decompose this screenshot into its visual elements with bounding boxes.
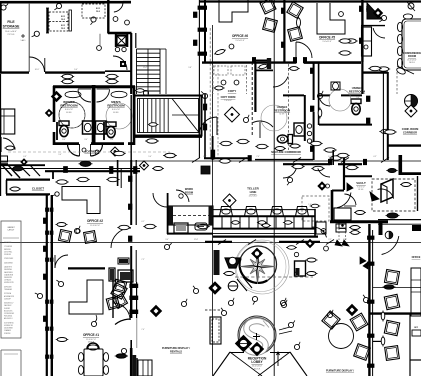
- svg-text:8'-0": 8'-0": [110, 139, 114, 141]
- svg-text:9'-0": 9'-0": [58, 154, 62, 156]
- svg-text:LINE: LINE: [250, 190, 257, 194]
- svg-text:OFFICE: OFFICE: [412, 256, 421, 259]
- svg-text:FURNITURE DISPLAY /: FURNITURE DISPLAY /: [326, 369, 354, 373]
- svg-text:7'-4": 7'-4": [256, 156, 260, 158]
- svg-text:5'-0": 5'-0": [356, 97, 360, 99]
- svg-text:99X6DD9: 99X6DD9: [4, 254, 11, 256]
- svg-text:52 S.F.: 52 S.F.: [279, 114, 285, 116]
- svg-text:8'-0": 8'-0": [62, 139, 66, 141]
- svg-text:7'-0": 7'-0": [141, 329, 145, 331]
- svg-text:1'-6": 1'-6": [308, 204, 312, 206]
- svg-text:24'-0"x8'-0": 24'-0"x8'-0": [249, 195, 258, 197]
- svg-text:4'-1": 4'-1": [141, 221, 145, 223]
- svg-text:FILE: FILE: [7, 20, 15, 24]
- svg-text:10'-9": 10'-9": [35, 69, 40, 71]
- svg-text:60 S.F.: 60 S.F.: [66, 112, 72, 114]
- svg-text:8'-2": 8'-2": [203, 156, 207, 158]
- svg-text:COPY ROOM: COPY ROOM: [221, 96, 236, 99]
- svg-text:60 S.F.: 60 S.F.: [113, 112, 119, 114]
- svg-text:8'-0"x7'-6": 8'-0"x7'-6": [112, 109, 120, 111]
- svg-text:C323BXDDE2: C323BXDDE2: [4, 313, 14, 315]
- svg-text:ROOM: ROOM: [185, 190, 193, 194]
- svg-text:CONF. ROOM: CONF. ROOM: [402, 127, 419, 131]
- svg-text:RENTALS: RENTALS: [170, 349, 182, 353]
- svg-text:5798121E8X: 5798121E8X: [4, 258, 14, 260]
- svg-text:FD3-5B554: FD3-5B554: [4, 316, 12, 318]
- svg-text:6'-3": 6'-3": [23, 156, 27, 158]
- svg-text:OFFICE #1: OFFICE #1: [83, 333, 99, 337]
- svg-text:SECURE CORRIDOR: SECURE CORRIDOR: [271, 150, 302, 154]
- svg-text:886599B: 886599B: [4, 249, 10, 251]
- svg-text:4D2459B6B: 4D2459B6B: [4, 328, 13, 330]
- svg-text:462D6E85B: 462D6E85B: [4, 262, 13, 264]
- svg-text:STORAGE: STORAGE: [3, 25, 20, 29]
- svg-text:RESTROOM: RESTROOM: [274, 108, 291, 112]
- svg-text:5'-4": 5'-4": [74, 69, 78, 71]
- svg-text:OFFICE #2: OFFICE #2: [87, 219, 103, 223]
- svg-text:17X-B8538: 17X-B8538: [4, 246, 12, 248]
- svg-text:B22-EC69C: B22-EC69C: [4, 310, 13, 312]
- svg-text:-E9XEEC48: -E9XEEC48: [4, 325, 13, 327]
- svg-text:6F67EDF17D: 6F67EDF17D: [4, 282, 15, 284]
- svg-text:3E6D63111: 3E6D63111: [4, 277, 12, 279]
- svg-text:CORRIDOR: CORRIDOR: [403, 130, 417, 134]
- svg-text:8'-0"x7'-6": 8'-0"x7'-6": [65, 109, 73, 111]
- svg-text:1-A6.1: 1-A6.1: [21, 39, 26, 42]
- svg-text:7'-6"x9'-0": 7'-6"x9'-0": [224, 100, 232, 102]
- svg-text:CLOSET: CLOSET: [32, 187, 44, 191]
- svg-text:X2B355F: X2B355F: [4, 333, 11, 335]
- svg-text:VAULT: VAULT: [356, 181, 366, 185]
- svg-text:217 S.F.: 217 S.F.: [7, 34, 15, 36]
- svg-text:20'-0"x20'-0": 20'-0"x20'-0": [252, 366, 262, 368]
- svg-text:11'-0"x12'-6": 11'-0"x12'-6": [90, 225, 100, 227]
- svg-text:OFFICE #5: OFFICE #5: [319, 36, 335, 40]
- svg-text:3'-0": 3'-0": [165, 239, 169, 241]
- svg-text:10'-0": 10'-0": [343, 239, 348, 241]
- svg-text:7'-2": 7'-2": [141, 259, 145, 261]
- svg-text:LOBBY: LOBBY: [251, 360, 263, 364]
- svg-text:X2X7D9B750: X2X7D9B750: [4, 322, 14, 324]
- svg-text:9'-0"x11'-6": 9'-0"x11'-6": [236, 40, 245, 42]
- svg-text:OFFICE #6: OFFICE #6: [232, 34, 248, 38]
- svg-text:63 S.F.: 63 S.F.: [358, 189, 364, 191]
- svg-text:6'-1": 6'-1": [328, 156, 332, 158]
- svg-text:12'-8": 12'-8": [194, 239, 199, 241]
- svg-text:F-841B2: F-841B2: [4, 308, 10, 310]
- svg-text:9'-0"x11'-6": 9'-0"x11'-6": [323, 41, 332, 43]
- svg-text:5'-0": 5'-0": [148, 156, 152, 158]
- svg-text:WORK: WORK: [185, 187, 193, 191]
- svg-text:9'-8": 9'-8": [188, 67, 192, 69]
- svg-text:COPY: COPY: [228, 89, 237, 93]
- svg-text:3'-4": 3'-4": [84, 139, 88, 141]
- svg-text:LAYOUT: LAYOUT: [8, 229, 15, 232]
- svg-text:FURNITURE DISPLAY /: FURNITURE DISPLAY /: [162, 346, 190, 350]
- svg-text:11'-4": 11'-4": [143, 67, 148, 69]
- svg-text:6065083CC7: 6065083CC7: [4, 303, 14, 305]
- svg-text:8'-0": 8'-0": [283, 328, 287, 330]
- svg-text:2'-2": 2'-2": [328, 239, 332, 241]
- svg-text:CORRIDOR: CORRIDOR: [84, 150, 99, 154]
- svg-text:4'-2": 4'-2": [373, 156, 377, 158]
- svg-text:C4815EF: C4815EF: [4, 298, 11, 300]
- svg-text:260 S.F.: 260 S.F.: [409, 62, 416, 64]
- svg-text:RESTROOM: RESTROOM: [349, 89, 366, 93]
- svg-text:D6F61188: D6F61188: [4, 286, 11, 288]
- svg-text:CX757F82-: CX757F82-: [4, 251, 13, 253]
- svg-text:93CF4220: 93CF4220: [4, 242, 12, 244]
- svg-text:11'-0"x17'-0": 11'-0"x17'-0": [86, 339, 96, 341]
- svg-text:ROOM: ROOM: [408, 54, 416, 58]
